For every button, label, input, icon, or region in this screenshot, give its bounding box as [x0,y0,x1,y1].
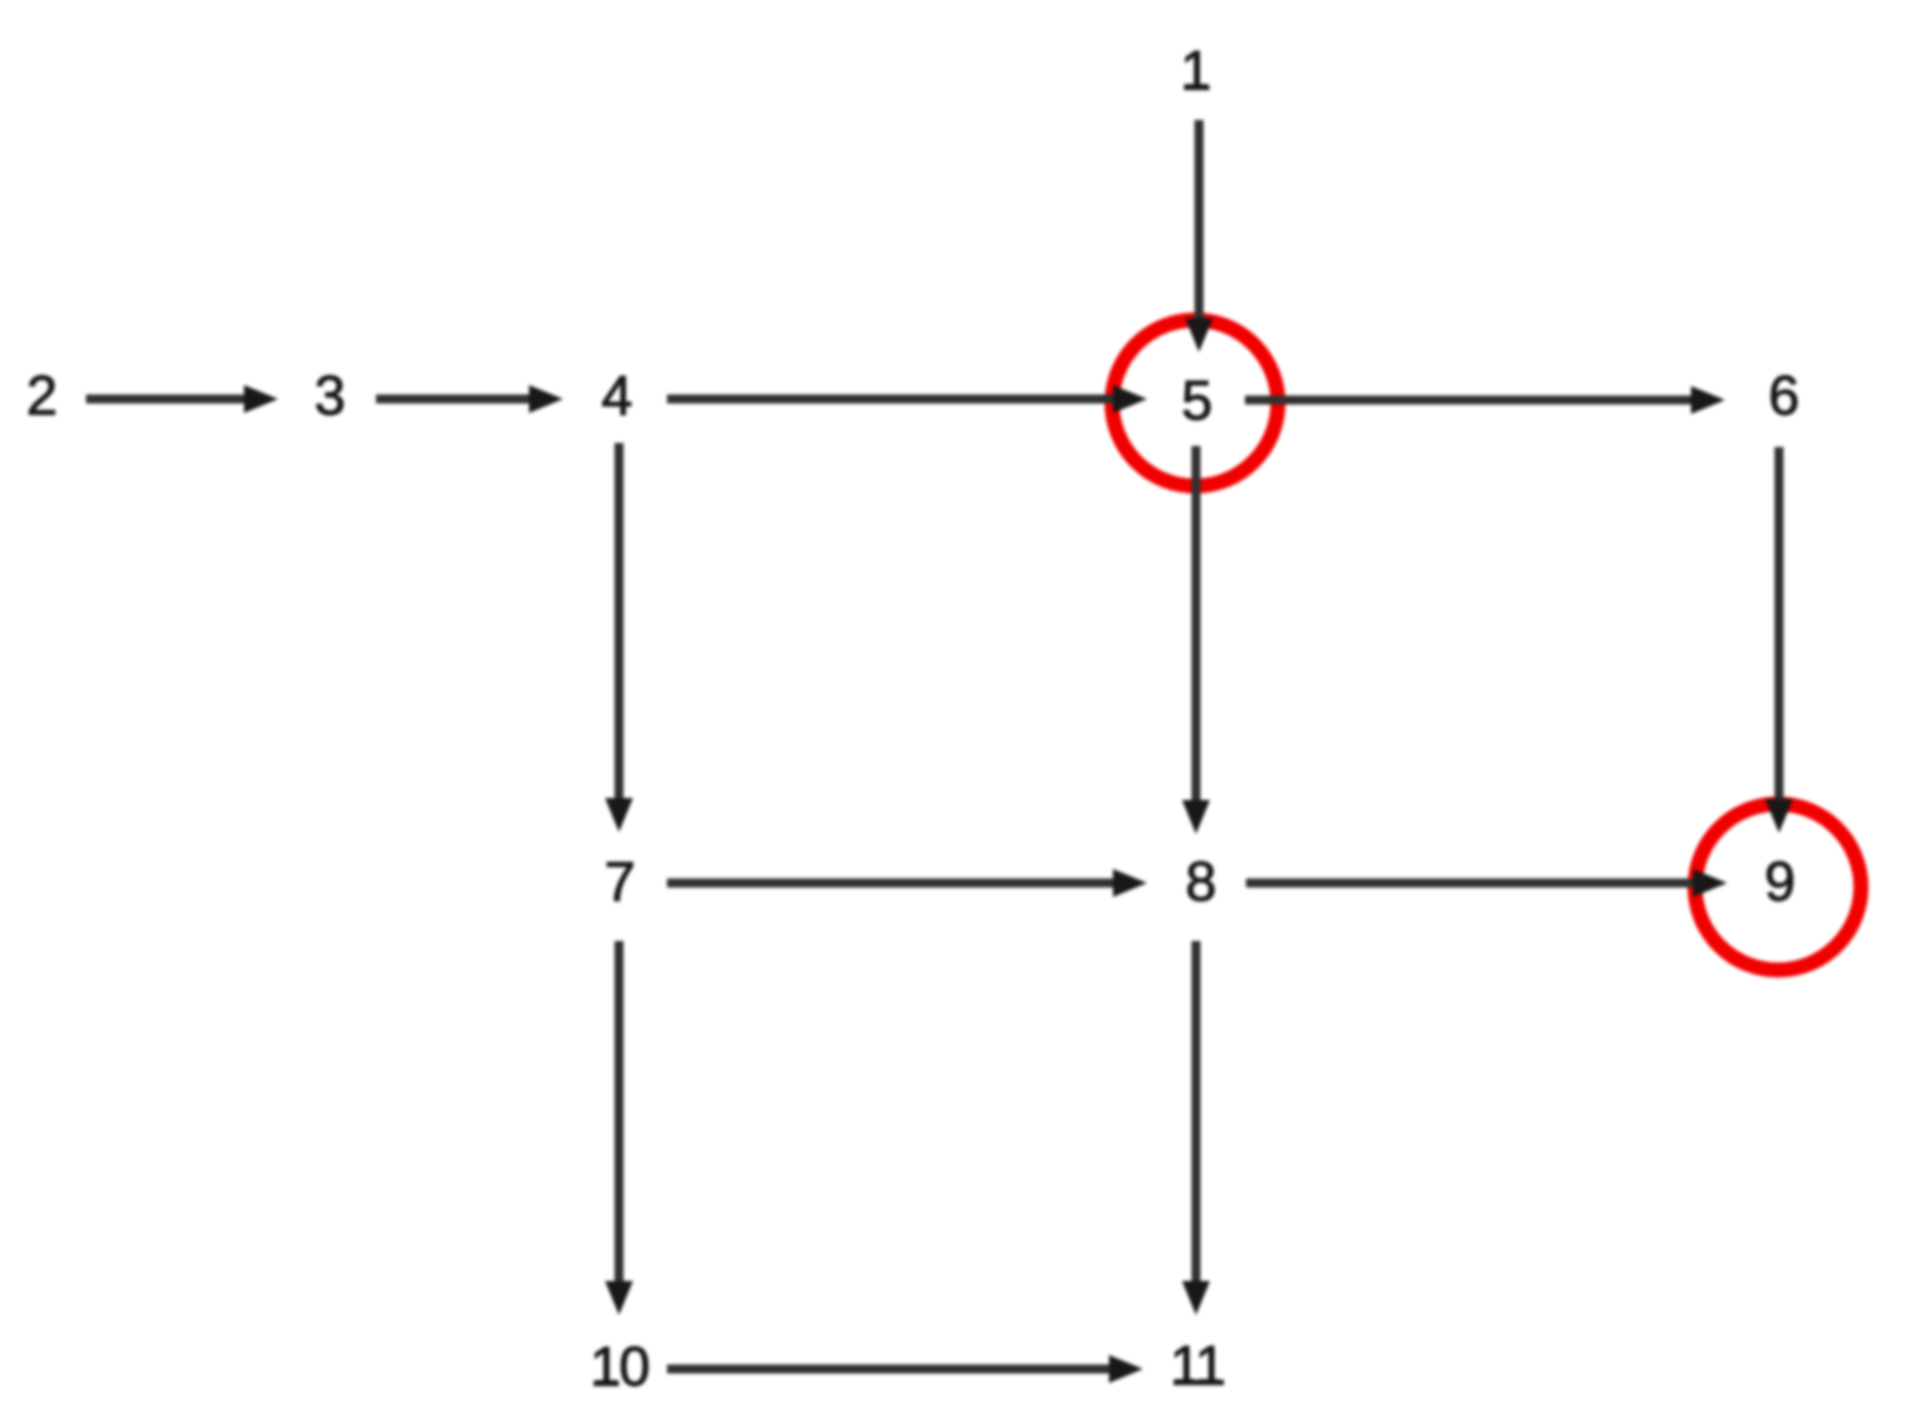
arrowhead 6->9 [1765,799,1793,833]
arrowhead 4->5 [1113,385,1147,413]
wire edge 8->9 [1246,879,1696,888]
svg-text:2: 2 [26,364,57,427]
highlight circle around node 5 [1112,320,1278,486]
arrowhead 3->4 [529,385,563,413]
wire edge 6->9 [1775,447,1784,802]
arrowhead 10->11 [1109,1355,1143,1383]
arrowhead 2->3 [244,385,278,413]
wire edge 8->11 [1192,941,1201,1284]
svg-text:11: 11 [1170,1334,1224,1397]
svg-text:4: 4 [601,364,632,427]
svg-text:8: 8 [1185,850,1216,913]
arrowhead 5->8 [1182,800,1210,834]
svg-text:5: 5 [1181,369,1212,432]
wire edge 10->11 [667,1365,1112,1374]
svg-text:3: 3 [314,364,345,427]
wire edge 1->5 [1195,120,1204,322]
wire edge 4->5 [667,395,1116,404]
svg-text:9: 9 [1764,850,1795,913]
arrowhead 4->7 [605,798,633,832]
wire edge 3->4 [376,395,532,404]
wire edge 7->8 [667,879,1116,888]
svg-text:6: 6 [1768,364,1799,427]
svg-text:7: 7 [604,850,635,913]
wire edge 5->8 [1192,446,1201,803]
wire edge 2->3 [86,395,246,404]
arrowhead 5->6 [1691,386,1725,414]
arrowhead 7->8 [1113,869,1147,897]
highlight circle around node 9 [1695,804,1861,970]
wire edge 7->10 [615,941,624,1284]
svg-text:10: 10 [590,1335,648,1398]
wire edge 4->7 [615,443,624,801]
arrowhead 1->5 [1185,318,1213,352]
wire edge 5->6 [1245,396,1694,405]
arrowhead 8->9 [1693,869,1727,897]
svg-text:1: 1 [1180,39,1211,102]
arrowhead 7->10 [605,1281,633,1315]
arrowhead 8->11 [1182,1281,1210,1315]
